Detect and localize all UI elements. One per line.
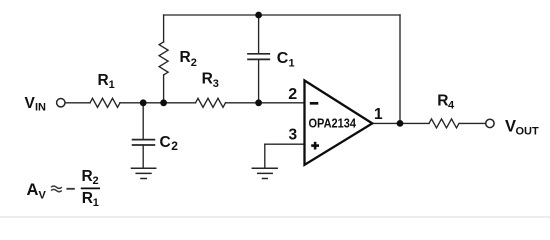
svg-text:3: 3 (289, 126, 298, 143)
svg-text:R: R (202, 71, 213, 88)
svg-text:OUT: OUT (516, 126, 540, 138)
svg-text:OPA2134: OPA2134 (309, 116, 357, 130)
svg-text:1: 1 (109, 79, 115, 91)
svg-text:4: 4 (448, 99, 455, 111)
svg-text:R: R (82, 190, 93, 207)
svg-text:C: C (160, 134, 171, 151)
svg-text:R: R (437, 92, 448, 109)
svg-text:C: C (277, 50, 289, 67)
svg-text:1: 1 (289, 57, 295, 69)
svg-text:3: 3 (213, 78, 219, 90)
svg-text:R: R (98, 72, 109, 89)
svg-text:V: V (39, 190, 47, 202)
svg-text:2: 2 (288, 86, 297, 103)
svg-text:1: 1 (374, 106, 383, 123)
svg-text:V: V (505, 117, 516, 135)
svg-text:R: R (180, 49, 191, 66)
svg-text:1: 1 (93, 197, 99, 209)
svg-text:A: A (27, 181, 39, 199)
svg-text:IN: IN (35, 102, 46, 114)
svg-text:2: 2 (93, 175, 99, 187)
svg-text:V: V (25, 95, 36, 112)
svg-text:2: 2 (171, 139, 178, 153)
svg-text:2: 2 (191, 57, 197, 69)
svg-text:R: R (82, 168, 93, 185)
